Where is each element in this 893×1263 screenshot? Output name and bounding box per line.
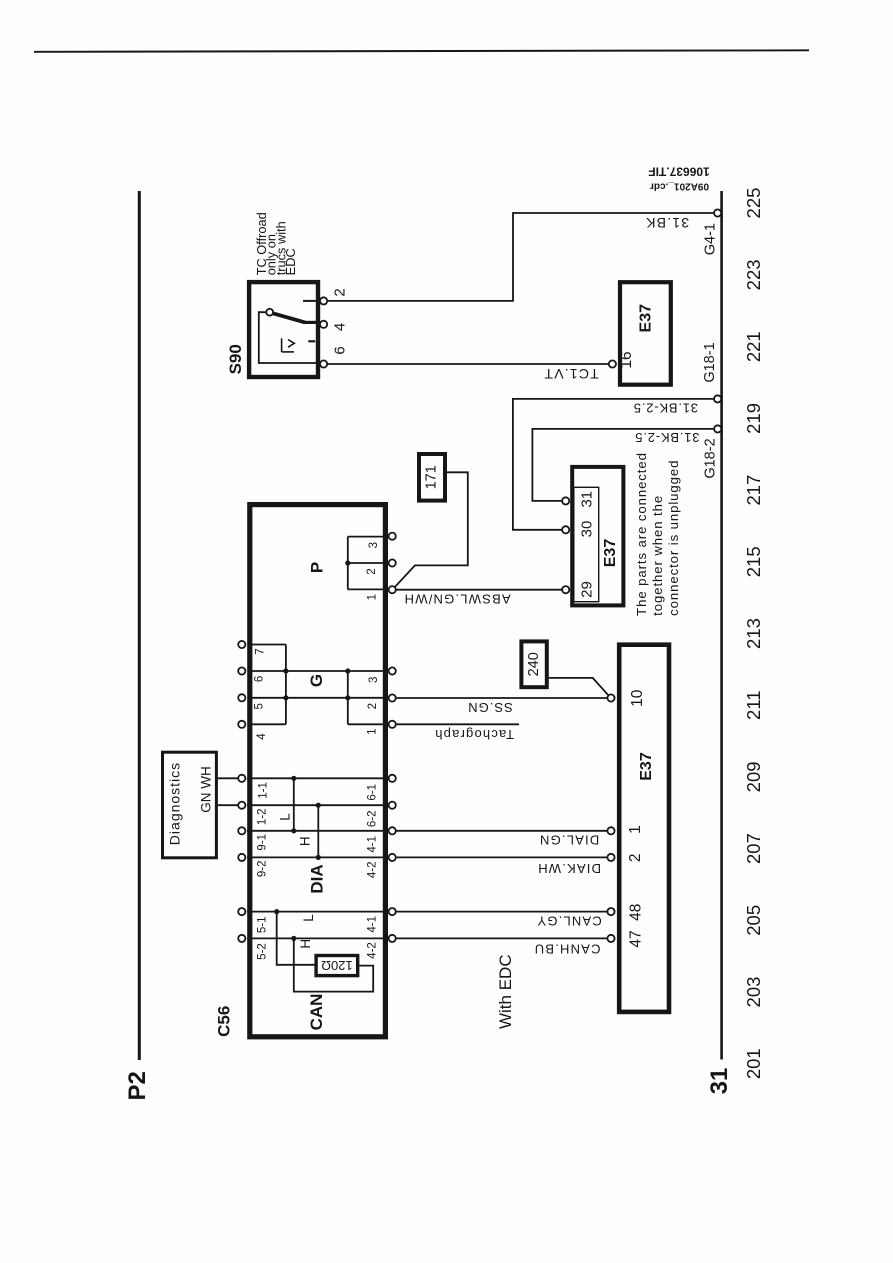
svg-text:9-1: 9-1 bbox=[257, 834, 269, 851]
svg-text:G4-1: G4-1 bbox=[702, 223, 718, 255]
svg-text:47: 47 bbox=[628, 930, 645, 947]
svg-text:SS.GN: SS.GN bbox=[467, 700, 512, 715]
C56 DIA group rows bbox=[247, 778, 388, 857]
svg-text:31.BK-2.5: 31.BK-2.5 bbox=[634, 430, 699, 445]
svg-text:31.BK: 31.BK bbox=[645, 215, 689, 231]
svg-text:H: H bbox=[298, 836, 313, 846]
wire 240 to E37 pin10 bbox=[549, 678, 609, 695]
svg-text:30: 30 bbox=[578, 521, 595, 538]
S90 internal fixed contact pin 2 bbox=[303, 300, 316, 302]
P pin circles bbox=[389, 533, 396, 540]
wire S90 pin2 to rail 31 (31.BK) bbox=[328, 213, 714, 301]
svg-text:2: 2 bbox=[627, 853, 644, 862]
S90 switch blade bbox=[273, 313, 305, 322]
svg-text:together when the: together when the bbox=[650, 495, 665, 616]
svg-text:4: 4 bbox=[256, 733, 268, 740]
C56 G group right cells bbox=[348, 671, 386, 724]
C56 G group left cells bbox=[250, 645, 286, 725]
svg-text:09A201_.cdr: 09A201_.cdr bbox=[650, 181, 709, 192]
svg-text:215: 215 bbox=[743, 546, 764, 577]
svg-text:201: 201 bbox=[743, 1048, 764, 1079]
svg-text:1-2: 1-2 bbox=[257, 808, 269, 825]
svg-text:1: 1 bbox=[367, 594, 379, 600]
S90 pin 2 bbox=[320, 297, 327, 304]
CAN left pin circles bbox=[238, 908, 245, 915]
svg-text:With EDC: With EDC bbox=[496, 954, 515, 1029]
svg-text:4: 4 bbox=[332, 323, 349, 331]
E37 pin 1 bbox=[607, 827, 614, 834]
E37 pin 47 bbox=[607, 935, 614, 942]
svg-text:P: P bbox=[308, 562, 327, 573]
svg-text:209: 209 bbox=[743, 761, 764, 792]
svg-text:2: 2 bbox=[367, 703, 379, 709]
svg-text:E37: E37 bbox=[638, 304, 655, 333]
DIA internal link 1-1 to 9-1 bbox=[293, 778, 295, 831]
svg-text:E37: E37 bbox=[638, 752, 655, 781]
svg-text:219: 219 bbox=[743, 403, 764, 434]
component 171 box bbox=[419, 454, 445, 501]
svg-text:207: 207 bbox=[743, 833, 764, 864]
P pin numbers bbox=[366, 542, 380, 601]
terminal G18-2 circle bbox=[714, 425, 721, 432]
svg-text:31.BK-2.5: 31.BK-2.5 bbox=[633, 401, 698, 416]
svg-text:106637.TIF: 106637.TIF bbox=[648, 165, 709, 179]
S90 pin 4 bbox=[320, 321, 327, 328]
svg-text:4-2: 4-2 bbox=[366, 861, 378, 878]
wire CAN H to resistor bbox=[277, 912, 315, 965]
S90 switch pivot bbox=[266, 309, 273, 316]
svg-text:DIA: DIA bbox=[308, 864, 327, 893]
svg-text:203: 203 bbox=[743, 977, 764, 1008]
wire CANH.BU bbox=[396, 937, 607, 939]
S90 internal wire to pin 6 bbox=[259, 312, 318, 363]
svg-text:120Ω: 120Ω bbox=[321, 958, 353, 973]
CAN labels bbox=[257, 916, 379, 960]
G pin numbers bbox=[254, 648, 381, 739]
E37 pin 48 bbox=[607, 908, 614, 915]
note TC Offroad only on trucs with EDC bbox=[254, 212, 298, 275]
svg-text:connector is unplugged: connector is unplugged bbox=[666, 460, 681, 616]
svg-text:6-1: 6-1 bbox=[366, 784, 378, 801]
G group junctions right bbox=[345, 668, 350, 673]
resistor 120 ohm box bbox=[316, 956, 358, 976]
component 240 box bbox=[521, 641, 546, 687]
wire S90 pin6 to E37 pin16 (TC1.VT) bbox=[328, 363, 609, 365]
svg-text:P2: P2 bbox=[124, 1071, 151, 1100]
svg-text:213: 213 bbox=[743, 618, 764, 649]
svg-text:4-1: 4-1 bbox=[366, 836, 378, 853]
wire Tachograph stub bbox=[396, 723, 519, 725]
CAN junction 5-1 bbox=[274, 909, 279, 914]
node P2 rail bbox=[138, 191, 141, 1060]
DIA internal link 1-2 to 9-2 bbox=[317, 805, 319, 857]
wire DIAL.GN bbox=[396, 830, 607, 832]
note the parts are connected bbox=[634, 452, 681, 616]
terminal G18-1 circle bbox=[714, 395, 721, 402]
E37 pin 10 bbox=[607, 694, 614, 701]
svg-text:6: 6 bbox=[332, 346, 349, 354]
svg-text:1-1: 1-1 bbox=[257, 782, 269, 799]
svg-text:4-1: 4-1 bbox=[366, 916, 378, 933]
wire Diagnostics to C56 1-2 bbox=[218, 804, 238, 806]
svg-text:1: 1 bbox=[366, 728, 378, 734]
S90 pin 6 bbox=[320, 360, 327, 367]
svg-text:240: 240 bbox=[526, 652, 542, 676]
svg-text:5-2: 5-2 bbox=[257, 943, 269, 960]
channel numbers 225..201 bbox=[743, 188, 764, 1080]
svg-text:The parts are connected: The parts are connected bbox=[634, 452, 649, 616]
connector E37 (pin 16) box bbox=[620, 282, 671, 385]
svg-text:L: L bbox=[301, 914, 316, 922]
svg-text:16: 16 bbox=[618, 351, 635, 368]
svg-text:221: 221 bbox=[743, 331, 764, 362]
svg-text:CANL.GY: CANL.GY bbox=[536, 914, 601, 929]
svg-text:225: 225 bbox=[743, 188, 764, 219]
svg-text:H: H bbox=[298, 939, 313, 949]
svg-text:C56: C56 bbox=[215, 1006, 234, 1037]
junction P group bbox=[345, 560, 350, 565]
E37 pin 31 bbox=[562, 497, 569, 504]
G group junctions left bbox=[283, 668, 288, 673]
C56 CAN group rows bbox=[247, 912, 388, 939]
svg-text:L: L bbox=[278, 813, 293, 821]
svg-text:31: 31 bbox=[706, 1068, 733, 1095]
wire Diagnostics to C56 1-1 bbox=[218, 777, 238, 779]
S90 actuator symbol bbox=[281, 338, 283, 352]
svg-text:31: 31 bbox=[578, 491, 595, 508]
svg-text:G18-2: G18-2 bbox=[703, 438, 719, 478]
svg-text:Tachograph: Tachograph bbox=[434, 727, 514, 742]
svg-text:2: 2 bbox=[332, 288, 349, 296]
svg-text:211: 211 bbox=[743, 690, 764, 720]
G left pin circles bbox=[238, 641, 245, 648]
header rule bbox=[34, 50, 809, 52]
DIA left pin circles bbox=[238, 775, 245, 782]
svg-text:171: 171 bbox=[424, 465, 440, 489]
svg-text:4-2: 4-2 bbox=[366, 942, 378, 959]
E37 pin 16 bbox=[609, 360, 616, 367]
svg-text:1: 1 bbox=[627, 825, 644, 834]
C56 P group cells bbox=[348, 537, 386, 590]
svg-text:9-2: 9-2 bbox=[257, 860, 269, 877]
wire CAN L to resistor bbox=[294, 938, 373, 991]
E37 pin 30 bbox=[562, 526, 569, 533]
wire CANL.GY bbox=[396, 911, 607, 913]
svg-text:G18-1: G18-1 bbox=[702, 342, 718, 382]
svg-text:CAN: CAN bbox=[307, 994, 326, 1031]
connector C56 box bbox=[250, 505, 386, 1037]
svg-text:217: 217 bbox=[743, 475, 764, 506]
connector E37 (pins 29 30 31) box bbox=[572, 467, 623, 606]
svg-text:205: 205 bbox=[743, 905, 764, 936]
wire rail31 to E37 pin31 (31.BK-2.5) bbox=[532, 429, 713, 501]
wire DIAK.WH bbox=[396, 856, 607, 858]
wire G bridge rows bbox=[286, 670, 348, 672]
svg-text:DIAK.WH: DIAK.WH bbox=[537, 861, 601, 876]
wire E37 pin29 to C56 P1 (ABSWL.GN/WH) bbox=[396, 589, 562, 591]
CAN right pin circles bbox=[389, 908, 396, 915]
svg-text:EDC: EDC bbox=[283, 248, 298, 275]
E37 pin 2 bbox=[607, 854, 614, 861]
svg-text:CANH.BU: CANH.BU bbox=[534, 942, 601, 957]
svg-text:223: 223 bbox=[743, 259, 764, 290]
wire 171 to C56 P1 bbox=[395, 472, 468, 587]
wire SS.GN bbox=[396, 697, 607, 699]
connector E37 (pins 10 1 2 47 48) box bbox=[619, 645, 669, 1012]
svg-text:S90: S90 bbox=[226, 344, 245, 374]
svg-text:GN WH: GN WH bbox=[199, 766, 214, 813]
E37 pin 29 bbox=[562, 586, 569, 593]
svg-text:5: 5 bbox=[254, 703, 266, 709]
svg-text:3: 3 bbox=[368, 542, 380, 548]
switch S90 box bbox=[249, 282, 318, 377]
svg-text:5-1: 5-1 bbox=[257, 916, 269, 933]
svg-text:DIAL.GN: DIAL.GN bbox=[539, 832, 599, 847]
DIA labels bbox=[257, 782, 379, 878]
svg-text:Diagnostics: Diagnostics bbox=[167, 762, 183, 845]
wire rail31 to E37 pin30 (31.BK-2.5) bbox=[513, 399, 714, 530]
terminal G4-1 bbox=[714, 209, 721, 216]
svg-text:6: 6 bbox=[254, 676, 266, 682]
CAN junction 5-2 bbox=[291, 936, 296, 941]
svg-text:6-2: 6-2 bbox=[366, 810, 378, 827]
svg-text:ABSWL.GN/WH: ABSWL.GN/WH bbox=[403, 592, 510, 607]
DIA right pin circles bbox=[389, 775, 396, 782]
svg-text:3: 3 bbox=[368, 677, 380, 683]
svg-text:G: G bbox=[307, 674, 326, 687]
svg-text:48: 48 bbox=[628, 904, 645, 921]
svg-text:E37: E37 bbox=[602, 539, 619, 568]
G right pin circles bbox=[389, 667, 396, 674]
svg-text:29: 29 bbox=[578, 581, 595, 598]
svg-text:10: 10 bbox=[629, 689, 646, 707]
node 31 rail bbox=[720, 191, 723, 1060]
svg-text:7: 7 bbox=[254, 648, 266, 654]
svg-text:2: 2 bbox=[366, 568, 378, 574]
box Diagnostics bbox=[163, 752, 217, 858]
svg-text:TC1.VT: TC1.VT bbox=[543, 366, 598, 382]
